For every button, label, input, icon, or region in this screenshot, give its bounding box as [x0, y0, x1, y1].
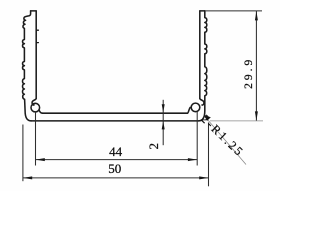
- left wall top edge: [31, 10, 37, 12]
- 50 right arrowhead: [199, 176, 208, 179]
- tick marks on left inner face: [36, 30, 38, 42]
- extension line right outer (50): [208, 123, 210, 187]
- 44 dimension line: [36, 159, 198, 161]
- 2 thickness dimension line: [162, 100, 164, 145]
- 29.9 dimension line: [255, 11, 257, 121]
- extension line left inner (44): [35, 112, 37, 166]
- right wall top edge: [200, 10, 205, 12]
- 29.9 top arrowhead (pointing up): [255, 11, 258, 20]
- left wall outer serrated edge: [23, 11, 32, 121]
- bottom wall outer surface: [31, 120, 199, 122]
- right wall inner face: [199, 11, 201, 99]
- 50 dimension line: [23, 177, 209, 179]
- left boss to floor connector: [39, 110, 43, 113]
- extension line right inner (44): [196, 112, 198, 166]
- R1.25 leader line: [204, 115, 246, 165]
- bottom wall inner surface: [43, 112, 188, 114]
- svg-text:50: 50: [108, 161, 121, 176]
- 29.9 bottom arrowhead (pointing down): [255, 111, 258, 120]
- 50 left arrowhead: [23, 176, 32, 179]
- left screw boss S-curve: [32, 98, 36, 105]
- 29.9 top extension line: [205, 10, 262, 12]
- left wall inner face: [35, 11, 37, 99]
- 2 upper arrowhead (pointing down): [162, 104, 165, 112]
- svg-text:29.9: 29.9: [243, 57, 255, 89]
- 44 left arrowhead: [36, 158, 45, 161]
- leader arrowhead (pointing up-left at corner): [203, 115, 210, 121]
- svg-text:44: 44: [109, 144, 123, 159]
- svg-text:2-R1.25: 2-R1.25: [198, 112, 247, 160]
- right wall outer serrated edge: [199, 11, 207, 121]
- 29.9 bottom extension line: [210, 120, 263, 122]
- 44 right arrowhead: [188, 158, 197, 161]
- right screw boss S-curve: [200, 98, 204, 105]
- extension line left outer (50): [22, 125, 24, 182]
- left screw boss circle: [31, 103, 40, 112]
- right screw boss circle: [191, 103, 200, 112]
- right boss ramp: [187, 107, 190, 113]
- 2 lower arrowhead (pointing up): [162, 121, 165, 129]
- svg-text:2: 2: [146, 143, 161, 150]
